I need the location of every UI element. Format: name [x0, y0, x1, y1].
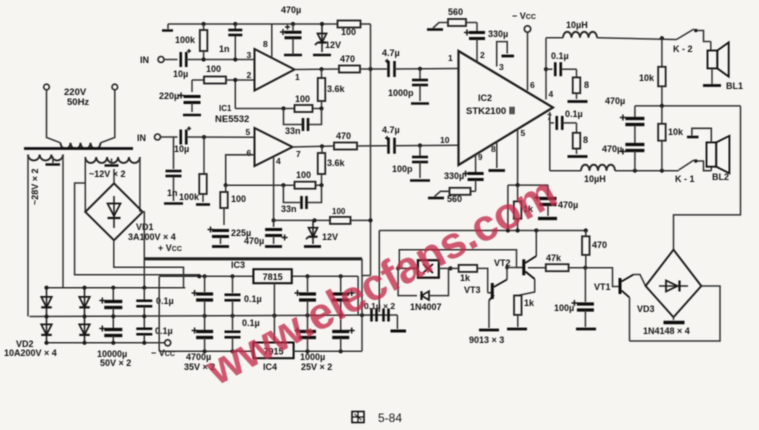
svg-text:4: 4	[549, 89, 554, 99]
svg-text:~12V × 2: ~12V × 2	[89, 169, 126, 179]
svg-text:100: 100	[295, 94, 310, 104]
label 10000µ	[97, 349, 131, 368]
svg-text:8: 8	[491, 144, 496, 154]
svg-text:K - 1: K - 1	[675, 174, 695, 184]
secondary winding 12V	[85, 157, 140, 212]
resistor 8 (Zobel B)	[573, 123, 588, 154]
svg-text:10A200V × 4: 10A200V × 4	[4, 348, 57, 358]
svg-text:2: 2	[480, 50, 485, 60]
speaker BL2	[687, 128, 729, 182]
pin 2 and capacitor 330µ	[464, 23, 508, 63]
svg-text:IC2: IC2	[478, 93, 492, 103]
svg-text:50Hz: 50Hz	[67, 97, 89, 108]
zener 12V (pos rail)	[313, 24, 341, 55]
diode VD2c	[79, 288, 90, 317]
ground (470µ)	[284, 52, 302, 55]
svg-text:470µ: 470µ	[602, 144, 622, 154]
resistor 100 (rail, in-line)	[338, 21, 361, 38]
svg-text:1000p: 1000p	[388, 88, 414, 98]
inductor 10µH (top)	[563, 20, 597, 38]
svg-text:VT2: VT2	[494, 258, 511, 268]
wire ch A feedback node	[233, 78, 323, 111]
svg-text:470µ: 470µ	[281, 5, 301, 15]
resistor 1k (IC2 bias)	[514, 185, 534, 230]
ground (VT3)	[479, 329, 499, 332]
svg-text:220µ: 220µ	[159, 91, 179, 101]
resistor 10k (upper)	[639, 38, 666, 106]
resistor 100 (-12V line)	[330, 207, 351, 224]
capacitor 470µ (IC2 bias)	[534, 185, 578, 218]
resistor 470 (VT1 feed)	[582, 231, 607, 268]
capacitor 0.1µ (upper)	[136, 288, 173, 317]
svg-text:3: 3	[499, 62, 504, 72]
svg-text:BL2: BL2	[712, 172, 729, 182]
wire VT1 emitter loop	[630, 286, 721, 341]
op-amp U2 IC2 STK2100 (power amp)	[459, 51, 554, 165]
svg-text:100k: 100k	[179, 192, 200, 202]
wire pin4 down	[272, 157, 276, 223]
wire ch B feedback node	[226, 183, 324, 187]
ground (Zobel A)	[568, 100, 588, 103]
capacitor 1000µ b (upper)	[332, 276, 355, 315]
svg-text:7815: 7815	[263, 272, 283, 282]
svg-text:560: 560	[448, 7, 463, 17]
capacitor 4700µ (lower)	[192, 316, 214, 351]
inductor 10µH (bottom)	[581, 165, 615, 184]
wire IC4 bottom bus	[159, 349, 362, 353]
capacitor 10000µ (lower)	[99, 317, 122, 343]
junction dots top rail	[202, 22, 325, 26]
svg-text:4.7µ: 4.7µ	[382, 125, 400, 135]
capacitor 0.1µ x2 (mid gnd)	[364, 301, 395, 322]
wire op-amp A output	[295, 67, 373, 71]
svg-text:IC3: IC3	[231, 260, 245, 270]
ground (100p)	[410, 162, 430, 181]
svg-text:470: 470	[336, 131, 351, 141]
svg-text:33n: 33n	[285, 126, 301, 136]
capacitor 470µ (op-amp supply)	[280, 5, 302, 52]
svg-text:K - 2: K - 2	[673, 44, 693, 54]
pin 6	[530, 80, 535, 90]
wire IN to pin3	[187, 57, 255, 61]
svg-text:100: 100	[206, 64, 221, 74]
svg-text:10µ: 10µ	[173, 69, 188, 79]
svg-text:12V: 12V	[325, 40, 341, 50]
wire top rail A (+12V rail)	[162, 24, 371, 31]
svg-text:100µ: 100µ	[554, 303, 574, 313]
svg-text:5-84: 5-84	[378, 411, 402, 425]
svg-text:100: 100	[231, 194, 246, 204]
regulator IC4 7915	[253, 343, 293, 373]
resistor 1k (relay drive)	[451, 265, 488, 293]
svg-text:12V: 12V	[322, 232, 338, 242]
capacitor 1000µ b (lower)	[332, 315, 355, 351]
transformer core	[24, 147, 133, 150]
wire VD1 out to +Vcc rail	[143, 212, 145, 288]
resistor 100 (ch B feedback)	[295, 170, 316, 189]
capacitor 4.7µ (ch B to IC2)	[382, 125, 459, 154]
switch K-2	[673, 29, 711, 54]
watermark www.elecfans.com	[198, 168, 564, 395]
wire output bottom line	[550, 169, 679, 173]
ground (220µ)	[183, 114, 201, 117]
wire left branch down	[507, 185, 509, 230]
svg-text:3: 3	[247, 50, 252, 60]
wire rect bottom bus	[44, 341, 164, 345]
ground (Zobel B)	[568, 155, 588, 158]
svg-text:470µ: 470µ	[605, 96, 625, 106]
capacitor 1n (ch B)	[166, 137, 182, 201]
svg-text:6: 6	[247, 148, 252, 158]
label 9013x3	[469, 335, 504, 345]
svg-text:7: 7	[296, 149, 301, 159]
svg-text:3A100V × 4: 3A100V × 4	[128, 232, 176, 242]
label VD2	[4, 339, 57, 358]
capacitor 0.1µ (IC3 in upper)	[225, 276, 262, 316]
resistor 470 (ch B output)	[334, 131, 387, 150]
svg-text:330µ: 330µ	[488, 29, 508, 39]
svg-text:6: 6	[530, 80, 535, 90]
transformer primary winding	[47, 90, 115, 149]
speaker BL1	[703, 42, 743, 92]
diode VD2a	[41, 288, 52, 317]
wire relay top loop	[399, 250, 516, 269]
op-amp U1B (NE5532 half)	[246, 127, 302, 166]
svg-text:330µ: 330µ	[444, 171, 464, 181]
svg-text:VD3: VD3	[637, 304, 655, 314]
svg-text:5: 5	[246, 127, 251, 137]
capacitor 33n (ch A)	[284, 109, 322, 137]
svg-text:1N4148 × 4: 1N4148 × 4	[643, 326, 690, 336]
wire node line y185	[508, 183, 548, 187]
wire IC3 right corner	[357, 276, 359, 315]
capacitor 220µ (ch A)	[159, 80, 201, 112]
wire IN B to pin5	[187, 135, 255, 139]
resistor 47k	[546, 253, 588, 271]
resistor 560 (top)	[427, 7, 477, 30]
svg-text:0.1µ: 0.1µ	[551, 51, 569, 61]
svg-text:BL1: BL1	[726, 81, 743, 91]
diode 1N4007 loop	[398, 268, 448, 312]
capacitor 0.1µ (lower)	[136, 317, 172, 343]
svg-text:8: 8	[583, 135, 588, 145]
svg-text:1000µ: 1000µ	[300, 352, 325, 362]
svg-text:50V × 2: 50V × 2	[100, 358, 131, 368]
svg-text:470: 470	[592, 240, 607, 250]
svg-text:1: 1	[448, 53, 453, 63]
wire right edge to VD3	[674, 106, 741, 250]
svg-text:2: 2	[247, 70, 252, 80]
svg-text:1n: 1n	[167, 188, 178, 198]
svg-text:3.6k: 3.6k	[327, 158, 346, 168]
wire IC3 top bus	[159, 274, 358, 278]
transistor VT1	[585, 268, 645, 341]
wire pin8 to rail	[271, 24, 273, 59]
wire right reg edge	[361, 259, 363, 352]
wire IC3 left edge	[158, 276, 160, 351]
svg-text:10k: 10k	[668, 127, 684, 137]
wire node line y230	[379, 228, 588, 312]
svg-text:100k: 100k	[175, 35, 196, 45]
capacitor 0.1µ (IC3 in lower)	[225, 316, 260, 352]
wire mid line y106	[635, 104, 741, 108]
resistor 1k (VT2 emitter)	[514, 296, 535, 328]
resistor 3.6k (ch A fb)	[318, 69, 346, 108]
pin 5 wire	[518, 128, 526, 185]
label 1000µ	[300, 352, 332, 372]
svg-text:560: 560	[447, 194, 462, 204]
svg-text:1N4007: 1N4007	[410, 302, 442, 312]
ground (100µ)	[576, 328, 596, 331]
ground (1n ch B)	[164, 202, 183, 205]
zener 12V (neg rail)	[304, 220, 338, 246]
relay X	[396, 260, 453, 278]
capacitor 10000µ (upper)	[99, 288, 122, 317]
wire rect top bus	[44, 286, 185, 290]
ground (1000p)	[411, 85, 429, 104]
svg-text:10µ: 10µ	[174, 144, 189, 154]
svg-text:8: 8	[263, 39, 268, 49]
svg-text:VT3: VT3	[464, 285, 481, 295]
capacitor 1000p	[388, 69, 428, 98]
resistor 560 (bottom)	[428, 171, 476, 204]
svg-text:1k: 1k	[460, 273, 471, 283]
capacitor 10µ (ch A coupling)	[173, 49, 191, 79]
wire VD1 bottom L1	[114, 240, 184, 287]
terminal +Vcc	[512, 11, 536, 91]
transistor VT3 (9013)	[464, 266, 517, 328]
svg-text:100p: 100p	[392, 164, 413, 174]
transistor VT2	[494, 231, 536, 296]
svg-text:3.6k: 3.6k	[327, 84, 346, 94]
diode VD2d	[79, 317, 90, 343]
svg-text:10µH: 10µH	[584, 174, 606, 184]
svg-text:470µ: 470µ	[244, 236, 264, 246]
label 4700µ	[184, 352, 215, 372]
label IC1 NE5532	[215, 104, 249, 125]
svg-text:0.1µ: 0.1µ	[155, 326, 173, 336]
capacitor 225µ	[208, 227, 252, 247]
bridge rectifier VD1	[85, 169, 182, 253]
ground (VD3)	[664, 317, 685, 322]
resistor 100 (ch B fb to cap)	[220, 185, 246, 225]
wire regulator mid pins	[273, 283, 275, 342]
resistor 100 (ch A to pin2)	[192, 64, 255, 84]
svg-text:~28V × 2: ~28V × 2	[30, 168, 40, 205]
regulator IC3 7815	[231, 260, 292, 283]
resistor 470 (ch A output)	[339, 54, 387, 73]
secondary winding 28V	[28, 155, 63, 317]
svg-text:9: 9	[478, 153, 483, 162]
wire op-amp B output	[293, 144, 335, 148]
wire rect mid bus	[30, 313, 398, 319]
svg-text:5: 5	[521, 128, 526, 138]
pin 3 stub	[497, 42, 514, 72]
svg-text:100: 100	[296, 170, 311, 180]
resistor 3.6k (ch B fb)	[318, 146, 346, 185]
svg-text:8: 8	[584, 80, 589, 90]
svg-text:1k: 1k	[524, 298, 535, 308]
svg-text:10: 10	[440, 135, 450, 145]
pin 10	[440, 135, 450, 145]
terminal -Vcc	[151, 340, 175, 358]
svg-text:10µH: 10µH	[566, 20, 588, 30]
svg-text:10k: 10k	[639, 73, 655, 83]
capacitor 470µ x2 (coupling)	[602, 96, 644, 171]
pin 9 and capacitor 330µ (bottom)	[463, 153, 484, 191]
capacitor 4.7µ (ch A to IC2)	[382, 48, 459, 77]
svg-text:0.1µ: 0.1µ	[565, 109, 583, 119]
ground (100k ch B)	[196, 203, 210, 206]
capacitor 100µ	[554, 268, 594, 327]
svg-text:4.7µ: 4.7µ	[382, 48, 400, 58]
op-amp U1A (NE5532 half)	[247, 39, 301, 91]
pin 4 wire up to output	[544, 38, 554, 100]
capacitor 470µ (ch B)	[244, 220, 288, 246]
svg-text:NE5532: NE5532	[215, 114, 249, 125]
rail +Vcc thick	[144, 257, 362, 260]
terminal IN (ch A)	[140, 55, 178, 65]
wire pin6	[224, 155, 255, 187]
switch K-1	[675, 159, 711, 184]
svg-text:4: 4	[276, 156, 281, 166]
ground (1k VT2)	[507, 328, 527, 331]
transformer primary terminals	[44, 84, 118, 108]
svg-text:9013 × 3: 9013 × 3	[469, 335, 504, 345]
svg-text:STK2100 Ⅲ: STK2100 Ⅲ	[466, 106, 516, 117]
wire -12V line	[274, 218, 373, 222]
pin 1	[448, 53, 453, 63]
svg-text:47k: 47k	[546, 253, 562, 263]
resistor 100k (ch B)	[179, 137, 207, 202]
capacitor 0.1µ (Zobel A)	[546, 51, 577, 76]
svg-text:IN: IN	[137, 133, 146, 143]
svg-text:25V × 2: 25V × 2	[301, 362, 332, 372]
svg-text:100: 100	[332, 207, 346, 216]
svg-text:1: 1	[295, 72, 300, 82]
wire L2	[75, 183, 200, 276]
resistor 10k (lower)	[658, 106, 684, 171]
svg-text:VT1: VT1	[594, 282, 611, 292]
pin 8 stub to ground	[489, 142, 506, 171]
bridge VD3	[637, 250, 701, 336]
svg-text:33n: 33n	[281, 204, 297, 214]
terminal IN (ch B)	[137, 133, 178, 143]
diode VD2b	[41, 317, 52, 343]
capacitor 0.1µ (Zobel B)	[550, 109, 583, 171]
wire long vertical right of preamp	[362, 24, 371, 276]
svg-text:0.1µ: 0.1µ	[244, 294, 262, 304]
wire output top line	[546, 36, 677, 40]
capacitor 4700µ (upper)	[192, 276, 214, 316]
capacitor 10µ (ch B coupling)	[174, 127, 191, 155]
caption	[352, 411, 402, 425]
resistor 100k (ch A input bias)	[175, 24, 207, 60]
svg-text:100: 100	[341, 27, 356, 37]
capacitor 1000µ a (upper)	[295, 276, 317, 315]
capacitor 33n (ch B)	[281, 185, 322, 214]
pin 7	[547, 112, 552, 122]
svg-text:IN: IN	[140, 55, 149, 65]
svg-text:IC1: IC1	[219, 104, 232, 113]
capacitor 1000µ a (lower)	[295, 315, 317, 351]
wire 47k line	[528, 267, 546, 269]
resistor 100 (ch A feedback)	[295, 94, 313, 112]
resistor 8 (Zobel A)	[573, 69, 589, 99]
ground (mid)	[391, 315, 407, 331]
svg-text:1n: 1n	[219, 44, 230, 54]
svg-text:470: 470	[340, 54, 355, 64]
capacitor 1n (ch A)	[219, 24, 242, 60]
capacitor 100p	[392, 146, 428, 175]
